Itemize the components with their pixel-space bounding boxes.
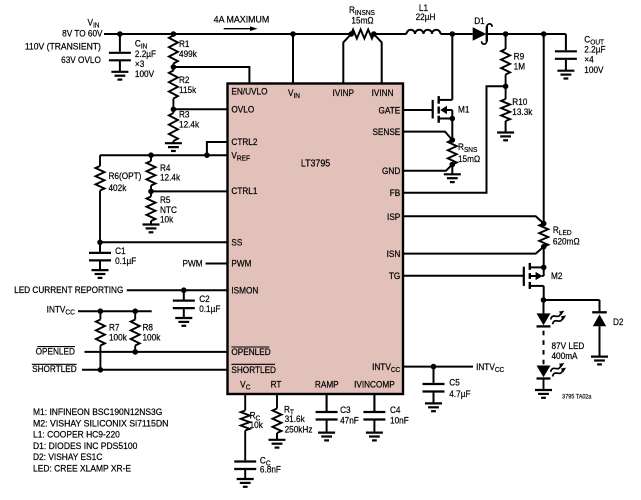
wire ISMON net / LED CURRENT REPORTING [127, 289, 228, 291]
svg-text:ISP: ISP [387, 212, 400, 223]
svg-text:110V (TRANSIENT): 110V (TRANSIENT) [25, 41, 101, 52]
svg-text:IVINCOMP: IVINCOMP [354, 379, 395, 390]
resistor R6 optional [96, 155, 105, 242]
resistor RT [273, 409, 282, 434]
capacitor CC [234, 460, 256, 469]
arrow 4A MAXIMUM [224, 26, 258, 31]
wire SENSE net [403, 132, 452, 140]
capacitor C1 [89, 242, 111, 260]
svg-text:RAMP: RAMP [315, 379, 339, 390]
wire INTVCC pullup rail [78, 310, 152, 312]
node ISMON-C2 junction [181, 287, 187, 293]
svg-text:0.1µF: 0.1µF [199, 303, 220, 314]
diode D2 [592, 300, 607, 357]
ground below LED string [535, 390, 552, 398]
wire VC pin [244, 394, 246, 411]
node INTVCC-R8 junction [132, 308, 138, 314]
wire M1 source to RSNS [451, 119, 453, 141]
inductor L1 [407, 30, 441, 34]
svg-text:D2: VISHAY ES1C: D2: VISHAY ES1C [33, 452, 102, 463]
resistor R9 [501, 34, 510, 86]
svg-text:C: C [584, 34, 590, 45]
resistor R8 [131, 311, 140, 352]
wire IVINCOMP pin [373, 394, 375, 411]
svg-text:15mΩ: 15mΩ [351, 15, 374, 26]
LED D-LED1 top of string [537, 309, 568, 327]
svg-text:×4: ×4 [584, 54, 593, 65]
ground below D2 [591, 357, 608, 365]
node M2 source-body junction [541, 265, 547, 271]
op-amp U1 LT3795 LED driver IC body [228, 84, 404, 395]
resistor R2 [169, 67, 178, 109]
svg-text:M2: VISHAY SILICONIX Si7115DN: M2: VISHAY SILICONIX Si7115DN [33, 418, 168, 429]
node R9-R10-FB junction [503, 84, 509, 90]
resistor RLED [539, 224, 548, 247]
svg-text:499k: 499k [179, 48, 197, 59]
ground below C1 [92, 260, 109, 278]
svg-text:PWM: PWM [183, 258, 203, 269]
ground below RSNS [444, 165, 461, 183]
svg-text:FB: FB [390, 188, 401, 199]
svg-text:R6(OPT): R6(OPT) [109, 170, 142, 181]
label OPENLED left overline [37, 346, 75, 348]
wire IVINP sense line [343, 34, 351, 84]
capacitor C2 [173, 290, 195, 308]
svg-text:×3: ×3 [135, 58, 144, 69]
node R2-R3 junction / OVLO net [171, 107, 177, 113]
capacitor C5 [423, 367, 445, 392]
svg-text:INTV: INTV [476, 362, 495, 373]
node L1-D1-M1 junction [450, 31, 456, 37]
wire RAMP pin [326, 394, 328, 411]
node R7-SHORTLED junction [98, 367, 104, 373]
capacitor C4 [363, 394, 385, 420]
svg-text:PWM: PWM [231, 258, 251, 269]
svg-text:C3: C3 [340, 404, 351, 415]
svg-text:LED: CREE XLAMP XR-E: LED: CREE XLAMP XR-E [33, 463, 131, 474]
pin SHORTLED overline [231, 363, 275, 365]
wire CTRL2 net [207, 142, 228, 155]
svg-text:LED CURRENT REPORTING: LED CURRENT REPORTING [14, 284, 123, 295]
ground below RT resistor [269, 433, 286, 448]
svg-text:L1: COOPER HC9-220: L1: COOPER HC9-220 [33, 429, 120, 440]
svg-text:63V OVLO: 63V OVLO [61, 54, 101, 65]
resistor RSNS [448, 140, 457, 164]
node rail-RLED junction [541, 31, 547, 37]
capacitor C3 [316, 394, 338, 420]
transistor M2 PMOS [524, 247, 544, 300]
svg-text:12.4k: 12.4k [160, 172, 181, 183]
resistor R1 [169, 36, 178, 68]
wire IVINN sense line [374, 34, 382, 84]
wire output rail to RLED [543, 34, 545, 224]
svg-text:620mΩ: 620mΩ [553, 236, 580, 247]
capacitor COUT [555, 34, 577, 59]
node RSNS-GND junction [450, 162, 456, 168]
wire SHORTLED net [82, 369, 228, 371]
svg-text:4.7µF: 4.7µF [449, 389, 470, 400]
node RINSNS right sense tap [371, 31, 377, 37]
node INTVCC-R7 junction [98, 308, 104, 314]
node INTVCC-C5 junction [431, 364, 437, 370]
wire dashed LED string [543, 331, 545, 366]
ground below C2 [175, 308, 192, 326]
node CTRL2-VREF junction [204, 152, 210, 158]
svg-text:10k: 10k [160, 214, 174, 225]
svg-text:8V TO 60V: 8V TO 60V [62, 28, 102, 39]
svg-text:GATE: GATE [379, 105, 401, 116]
node M1 source-body junction [450, 116, 456, 122]
svg-text:C: C [246, 384, 251, 391]
svg-text:400mA: 400mA [551, 350, 577, 361]
svg-text:INTV: INTV [47, 304, 66, 315]
svg-text:250kHz: 250kHz [285, 424, 313, 435]
node SS-R6-C1 junction [97, 240, 103, 246]
svg-text:TG: TG [389, 271, 401, 282]
svg-text:2.2µF: 2.2µF [135, 48, 156, 59]
node R8-OPENLED junction [132, 349, 138, 355]
svg-text:R9: R9 [514, 51, 525, 62]
pin OPENLED overline [231, 346, 269, 348]
wire ISP net [403, 216, 544, 223]
ground below C5 [425, 392, 442, 412]
svg-text:EN/UVLO: EN/UVLO [231, 86, 267, 97]
svg-text:REF: REF [237, 155, 250, 162]
ground below R10 [497, 121, 514, 140]
svg-text:2.2µF: 2.2µF [584, 44, 605, 55]
svg-text:CC: CC [65, 309, 74, 316]
svg-text:IVINP: IVINP [333, 88, 355, 99]
svg-text:RT: RT [271, 379, 282, 390]
LED D-LED2 bottom of string [537, 361, 568, 390]
svg-text:OPENLED: OPENLED [36, 346, 75, 357]
resistor RINSNS on rail [351, 30, 374, 39]
svg-text:100k: 100k [143, 332, 161, 343]
wire RT pin [276, 394, 278, 409]
svg-text:R: R [458, 142, 464, 153]
resistor R10 [501, 86, 510, 121]
svg-text:C4: C4 [390, 404, 401, 415]
transistor M1 NMOS [433, 34, 453, 123]
node SENSE-RSNS junction [450, 137, 456, 143]
ground below CC [237, 469, 254, 487]
svg-text:D1: DIODES INC PDS5100: D1: DIODES INC PDS5100 [33, 440, 137, 451]
ground below R3 [165, 141, 182, 151]
svg-text:100k: 100k [109, 332, 127, 343]
svg-text:15mΩ: 15mΩ [458, 154, 481, 165]
node VIN rail: VIN pin tap [290, 31, 296, 37]
wire LED anode feed [543, 300, 545, 313]
svg-text:CC: CC [495, 367, 504, 374]
node VIN rail: CIN tap [117, 31, 123, 37]
node R4-R5-CTRL1 junction [148, 189, 154, 195]
wire ISN net [403, 247, 544, 254]
diode D1 schottky [473, 24, 492, 44]
wire VIN pin to rail [292, 34, 294, 84]
svg-text:D1: D1 [474, 15, 485, 26]
wire SS net [100, 241, 228, 243]
svg-text:M1: INFINEON BSC190N12NS3G: M1: INFINEON BSC190N12NS3G [33, 407, 162, 418]
svg-text:CTRL2: CTRL2 [231, 137, 257, 148]
wire GATE net [403, 109, 433, 111]
wire EN/UVLO net [173, 67, 249, 84]
svg-text:IVINN: IVINN [372, 88, 394, 99]
svg-text:GND: GND [382, 166, 400, 177]
resistor R4 [147, 155, 156, 191]
svg-text:0.1µF: 0.1µF [115, 255, 136, 266]
node M2 drain - LED string - D2 junction [541, 297, 547, 303]
resistor RC [241, 411, 250, 461]
wire INTVCC output net [403, 366, 473, 368]
wire VIN top rail [104, 33, 566, 35]
wire VREF net [100, 154, 228, 156]
resistor R3 [169, 109, 178, 141]
svg-text:LT3795: LT3795 [301, 158, 330, 170]
svg-text:D2: D2 [613, 317, 624, 328]
svg-text:SHORTLED: SHORTLED [32, 364, 77, 375]
node ISP-RLED junction [541, 221, 547, 227]
svg-text:4A MAXIMUM: 4A MAXIMUM [214, 14, 270, 25]
svg-text:3795 TA02a: 3795 TA02a [562, 394, 592, 400]
wire TG net [403, 275, 524, 277]
svg-text:100V: 100V [135, 69, 154, 80]
svg-text:ISMON: ISMON [231, 285, 258, 296]
node VIN rail: R1 tap [171, 31, 177, 37]
svg-text:SHORTLED: SHORTLED [231, 364, 276, 375]
wire OPENLED net [85, 351, 228, 353]
svg-text:INTV: INTV [372, 362, 391, 373]
svg-text:OVLO: OVLO [231, 104, 254, 115]
svg-text:6.8nF: 6.8nF [260, 464, 281, 475]
capacitor CIN [109, 34, 131, 60]
node R1-R2 junction / EN-UVLO net [171, 64, 177, 70]
wire FB net [403, 86, 503, 192]
node VREF-R4 junction [148, 152, 154, 158]
svg-text:47nF: 47nF [340, 415, 359, 426]
resistor R7 [96, 311, 105, 370]
ground below C4 [366, 420, 383, 441]
svg-text:1M: 1M [514, 61, 525, 72]
svg-text:SENSE: SENSE [372, 127, 400, 138]
svg-text:12.4k: 12.4k [179, 119, 200, 130]
ground below COUT [557, 60, 574, 79]
svg-text:100V: 100V [584, 64, 603, 75]
svg-text:SS: SS [231, 237, 242, 248]
ground below R5 [143, 221, 160, 232]
svg-text:10nF: 10nF [390, 415, 409, 426]
wire PWM net [206, 263, 228, 265]
svg-text:115k: 115k [179, 84, 197, 95]
svg-text:22µH: 22µH [416, 12, 436, 23]
svg-text:13.3k: 13.3k [512, 106, 533, 117]
resistor R5 NTC [147, 191, 156, 221]
svg-text:87V LED: 87V LED [551, 340, 584, 351]
wire M2 drain to D2 [544, 299, 600, 301]
svg-text:31.6k: 31.6k [285, 413, 306, 424]
svg-text:C: C [135, 38, 141, 49]
svg-text:402k: 402k [109, 182, 127, 193]
svg-text:IN: IN [293, 93, 300, 100]
ground below CIN [111, 60, 128, 79]
svg-text:R: R [349, 5, 355, 16]
svg-text:OPENLED: OPENLED [231, 347, 270, 358]
svg-text:CTRL1: CTRL1 [231, 186, 257, 197]
node ISN-RLED junction [541, 244, 547, 250]
svg-text:CC: CC [391, 367, 400, 374]
ground below C3 [318, 420, 335, 441]
svg-text:10k: 10k [250, 420, 264, 431]
wire GND pin net [403, 165, 452, 171]
svg-text:M2: M2 [551, 271, 563, 282]
svg-text:R: R [553, 225, 559, 236]
svg-text:M1: M1 [458, 104, 470, 115]
wire CTRL1 net [151, 190, 228, 192]
node RINSNS left sense tap [348, 31, 354, 37]
svg-text:ISN: ISN [387, 249, 401, 260]
label SHORTLED left overline [32, 363, 77, 365]
wire OVLO net [173, 108, 227, 110]
svg-text:C5: C5 [449, 377, 460, 388]
node rail-R9 junction [503, 31, 509, 37]
